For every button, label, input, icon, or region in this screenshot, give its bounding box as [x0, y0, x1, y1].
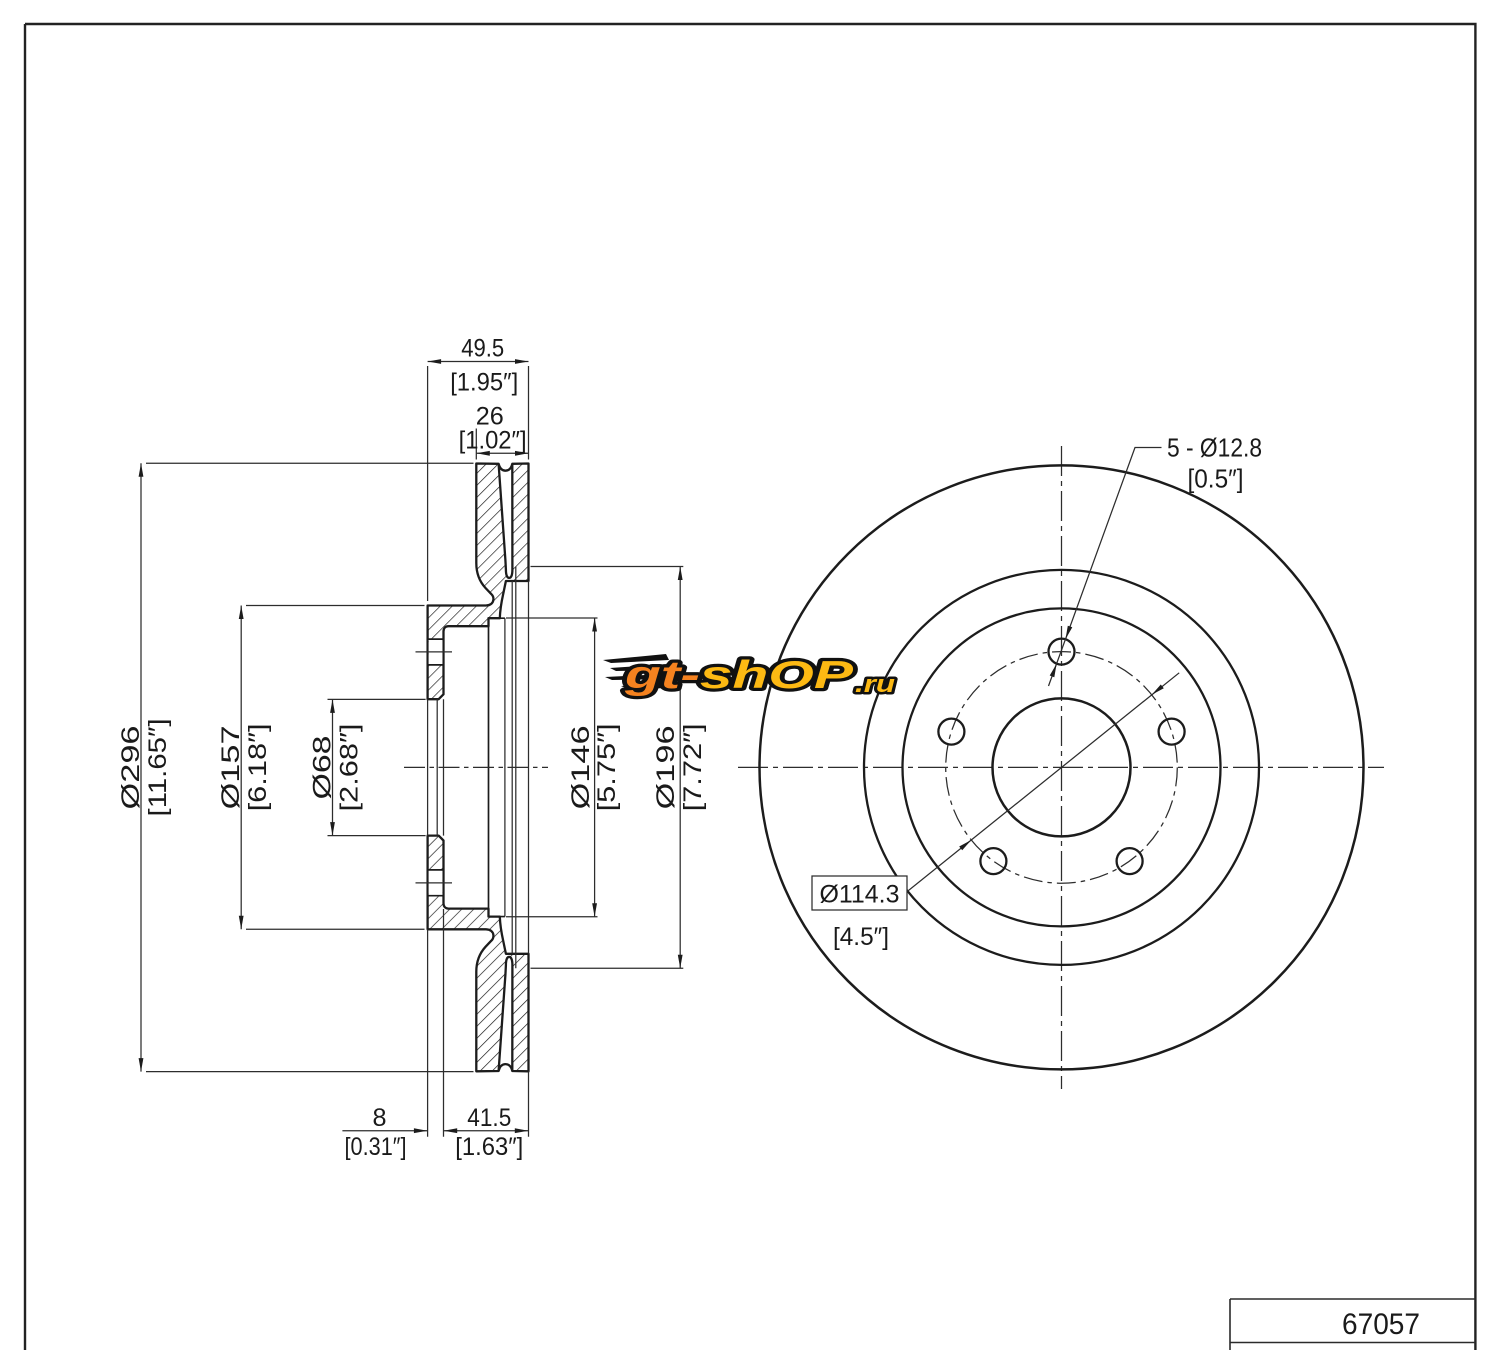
svg-text:Ø68: Ø68 — [309, 736, 337, 800]
svg-text:[1.63″]: [1.63″] — [455, 1133, 523, 1161]
bolt hole centre tick (upper) — [416, 651, 453, 653]
svg-text:gt-shOP: gt-shOP — [623, 654, 854, 697]
svg-text:[2.68″]: [2.68″] — [336, 724, 364, 812]
bolt hole 2 Ø12.8 — [938, 719, 964, 745]
svg-text:[4.5″]: [4.5″] — [833, 923, 889, 951]
svg-text:8: 8 — [373, 1104, 387, 1132]
svg-text:Ø196: Ø196 — [652, 725, 680, 809]
svg-text:[7.72″]: [7.72″] — [679, 723, 707, 811]
svg-text:.ru: .ru — [855, 671, 895, 698]
watermark logo gt-shop.ru — [603, 654, 895, 698]
bolt hole 5 Ø12.8 — [1159, 719, 1185, 745]
dimension Ø196 [7.72"] friction inner diameter — [531, 567, 684, 969]
svg-text:Ø146: Ø146 — [567, 725, 595, 809]
dimension Ø146 [5.75"] bowl diameter — [506, 618, 598, 917]
dimension 26 [1.02"] friction ring thickness — [476, 429, 528, 460]
bolt circle Ø114.3 (dash-dot) — [946, 652, 1178, 884]
svg-text:Ø296: Ø296 — [117, 725, 145, 809]
svg-text:[0.5″]: [0.5″] — [1188, 466, 1244, 494]
svg-text:Ø114.3: Ø114.3 — [820, 881, 900, 909]
front view horizontal centreline — [738, 766, 1384, 768]
dimension 8 [0.31"] hat wall thickness — [342, 1130, 427, 1132]
svg-text:67057: 67057 — [1342, 1308, 1420, 1341]
section view: hatched cut of disc (lower half) — [428, 836, 529, 1072]
dimension Ø114.3 [4.5"] bolt circle (boxed) — [908, 673, 1180, 891]
dimension 41.5 [1.63"] — [444, 1130, 529, 1132]
vent inlet slot edge — [511, 581, 513, 954]
bolt hole 3 Ø12.8 — [980, 848, 1006, 874]
svg-text:[1.95″]: [1.95″] — [450, 369, 518, 397]
bowl wall cylinder (lower) — [489, 916, 505, 918]
extension lines bottom — [428, 909, 529, 1137]
section view centreline — [404, 766, 548, 768]
outboard face rim edge — [528, 581, 530, 954]
front view vertical centreline — [1061, 446, 1063, 1089]
bolt hole 4 Ø12.8 — [1117, 848, 1143, 874]
section view: hatched cut of disc (upper half) — [428, 464, 529, 700]
dimension Ø157 [6.18"] hat flange diameter — [241, 606, 424, 930]
svg-text:5 - Ø12.8: 5 - Ø12.8 — [1167, 435, 1262, 463]
centre bore Ø68 — [993, 698, 1131, 836]
dimension Ø68 [2.68"] centre bore — [328, 699, 426, 835]
dimension 49.5 [1.95"] overall height — [428, 362, 529, 602]
svg-text:[1.02″]: [1.02″] — [459, 427, 527, 455]
svg-text:[0.31″]: [0.31″] — [345, 1133, 407, 1161]
svg-text:49.5: 49.5 — [461, 335, 504, 363]
dimension Ø296 [11.65"] outer diameter — [141, 463, 474, 1071]
circle Ø157 hat flange — [903, 608, 1221, 926]
bolt hole centre tick (lower) — [416, 882, 453, 884]
hat bowl floor edge — [488, 618, 490, 916]
bolt hole in hat wall (lower) — [429, 870, 443, 896]
svg-text:[6.18″]: [6.18″] — [244, 723, 272, 811]
centre bore rim edges — [428, 699, 444, 835]
svg-text:Ø157: Ø157 — [217, 725, 245, 809]
outboard plate inner face edge — [515, 567, 517, 969]
hat bowl rim edge — [504, 618, 506, 916]
bowl wall cylinder (upper) — [489, 617, 505, 619]
circle Ø196 friction inner — [864, 570, 1259, 965]
bolt hole in hat wall (upper) — [429, 639, 443, 665]
bolt hole 1 Ø12.8 — [1049, 639, 1075, 665]
outer circle Ø296 — [760, 465, 1364, 1069]
svg-text:41.5: 41.5 — [467, 1104, 511, 1132]
svg-text:[5.75″]: [5.75″] — [593, 723, 621, 811]
leader/dimension 5 - Ø12.8 [0.5"] bolt holes — [1049, 448, 1162, 687]
title block — [1230, 1299, 1476, 1350]
svg-text:[11.65″]: [11.65″] — [144, 718, 172, 816]
